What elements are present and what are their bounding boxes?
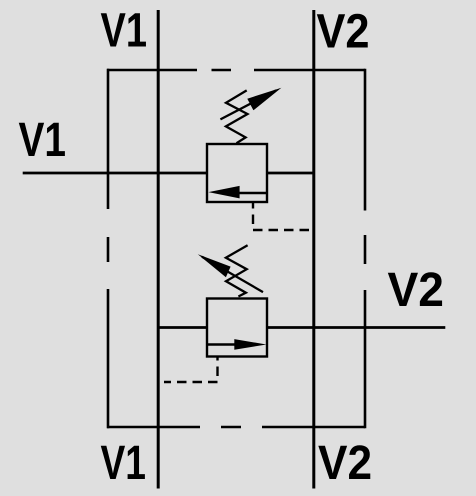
RV2 pilot line (dashed, to V1 side): [164, 358, 218, 383]
wire: RV2 outlet line to V2 port: [268, 326, 445, 329]
RV2 flow arrow (points right): [207, 339, 266, 350]
svg-text:V2: V2: [317, 5, 370, 59]
wire: V1 inlet line: [23, 172, 206, 175]
relief valve RV2 body: [207, 299, 267, 357]
wire: V1 line to RV2 inlet: [158, 326, 206, 329]
svg-text:V2: V2: [318, 436, 372, 490]
enclosure (valve body boundary, dashed): [107, 69, 365, 429]
RV1 spring: [226, 90, 248, 143]
svg-text:V1: V1: [19, 113, 67, 167]
RV1 adjustment arrow: [220, 88, 281, 120]
svg-text:V2: V2: [388, 263, 445, 317]
RV2 spring: [226, 245, 248, 296]
wire: V1 vertical line: [157, 10, 160, 489]
RV2 adjustment arrow: [198, 254, 263, 292]
svg-text:V1: V1: [101, 4, 148, 58]
wire: V2 vertical line: [312, 10, 315, 489]
RV1 flow arrow (points left): [208, 186, 267, 199]
svg-text:V1: V1: [101, 436, 147, 490]
RV1 pilot line (dashed, to V2 side): [253, 203, 310, 230]
relief valve RV1 body: [207, 144, 267, 202]
wire: RV1 outlet to V2 line: [268, 172, 314, 175]
